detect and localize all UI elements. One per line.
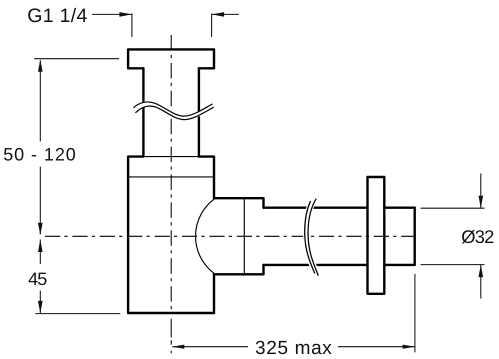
diameter extension line top (421, 207, 485, 209)
nut joint line on body (129, 176, 214, 178)
bottom extension line left (35, 313, 120, 315)
arrow 325 right (403, 345, 416, 349)
325 dimension line right segment (338, 346, 415, 348)
arrow 45 down (38, 301, 43, 314)
inner line of outlet nut (243, 199, 245, 274)
outlet pipe end cap (414, 208, 416, 265)
horizontal centerline (45, 235, 414, 237)
arrow 325 left (172, 345, 185, 349)
svg-text:50 - 120: 50 - 120 (3, 145, 76, 165)
svg-text:G1 1/4: G1 1/4 (27, 5, 87, 27)
325 dimension line left segment (172, 346, 248, 348)
diameter extension line bottom (421, 264, 485, 266)
vertical inlet pipe wall left (142, 68, 144, 156)
extension line under inlet flange (34, 58, 119, 60)
arrow diameter down (479, 196, 484, 209)
diameter dimension line lower tail (480, 265, 482, 299)
svg-text:Ø32: Ø32 (461, 226, 494, 247)
horizontal outlet pipe bottom wall (264, 264, 415, 266)
50-120 dimension line upper part (39, 61, 41, 142)
pipe break left S-curve (305, 201, 315, 274)
top extension line left (131, 14, 133, 38)
internal dome arc in body (196, 199, 214, 273)
outlet nut (stub) on body right (214, 198, 264, 274)
centerline bottom dot (170, 351, 172, 354)
arrow diameter up (479, 265, 484, 278)
svg-text:325 max: 325 max (255, 338, 332, 359)
arrow 50-120 up (38, 59, 43, 72)
pipe break right S-curve (308, 199, 318, 276)
arrow top-left pointing right (119, 12, 131, 17)
centerline tail below body (170, 319, 172, 345)
pipe break (vertical pipe) white band (135, 104, 214, 118)
top dimension line left segment (92, 13, 132, 15)
pipe break upper S-curve (134, 102, 213, 116)
horizontal outlet pipe top wall (264, 206, 415, 208)
arrow 50-120 down (38, 223, 43, 236)
arrow top-right pointing left (212, 12, 225, 17)
top extension line right (211, 14, 213, 38)
45 dimension line upper part (39, 240, 41, 265)
trap body (cup) with top nut shoulder (128, 157, 214, 313)
diameter dimension line upper tail (480, 174, 482, 209)
vertical centerline (170, 35, 172, 314)
wall flange on outlet pipe (368, 177, 385, 294)
top dimension line right segment (212, 13, 239, 15)
arrow 45 up (38, 240, 43, 253)
vertical inlet pipe wall right (198, 68, 200, 156)
nut top edge seen through pipe (143, 156, 199, 158)
svg-text:45: 45 (28, 269, 47, 289)
pipe break lower S-curve (135, 106, 213, 120)
pipe break (horizontal pipe) white band (306, 200, 316, 275)
325 extension line right (414, 274, 416, 352)
45 dimension line lower part (39, 291, 41, 314)
50-120 dimension line lower part (39, 167, 41, 235)
inlet flange (top of vertical pipe) (128, 49, 214, 68)
